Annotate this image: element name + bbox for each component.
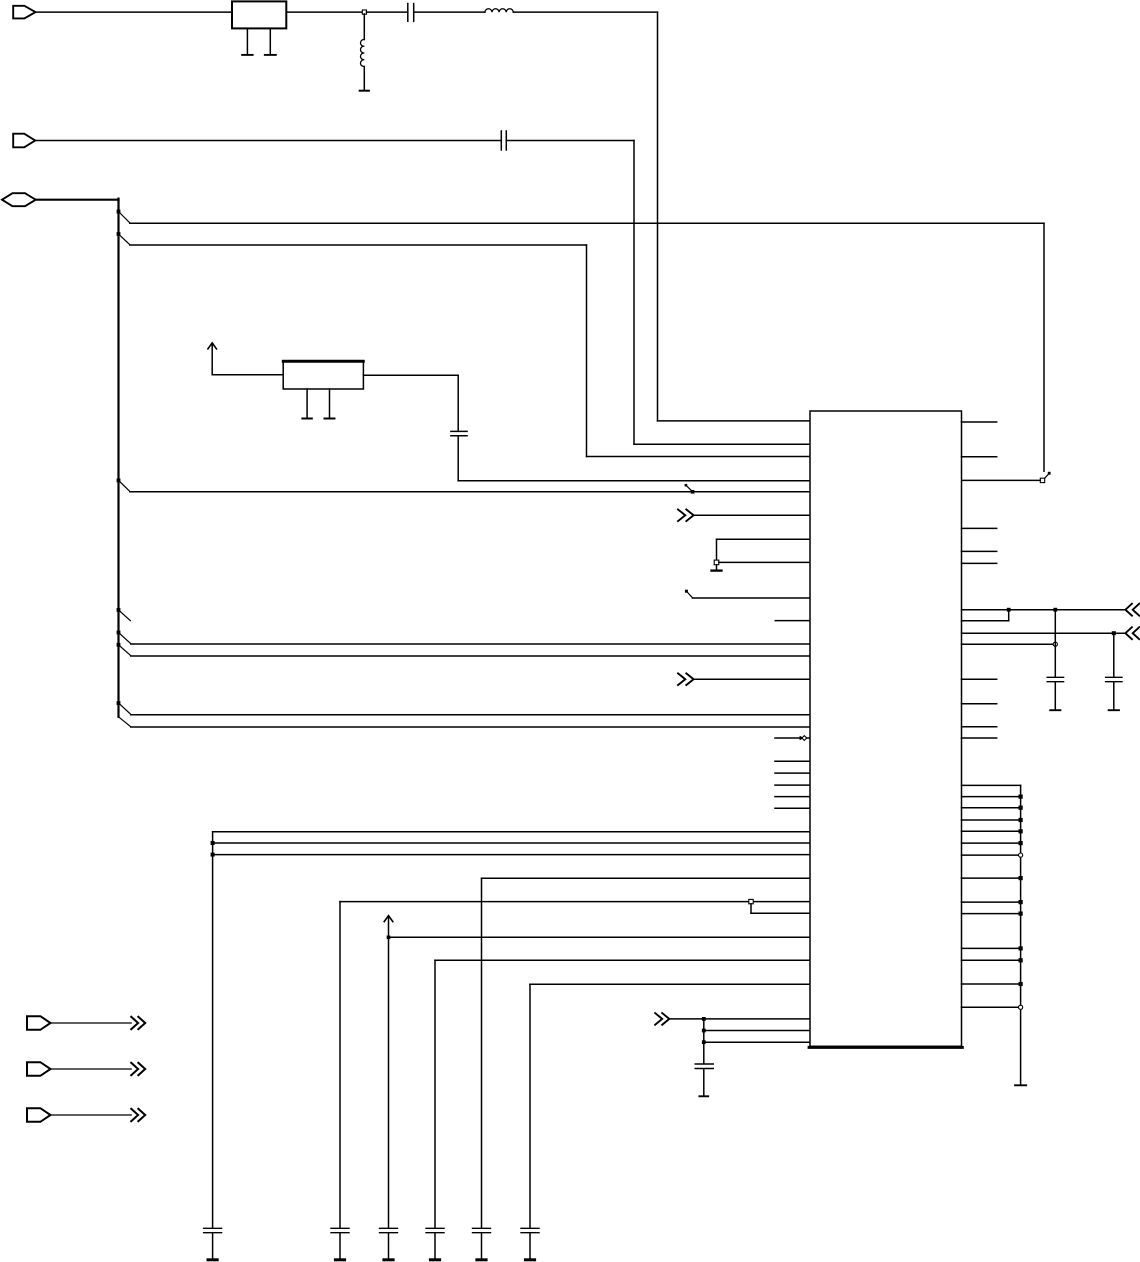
wire row5 <box>340 901 810 903</box>
capacitor C8 <box>473 1228 491 1232</box>
bus wire J3 east <box>36 199 119 201</box>
capacitor C7 <box>426 1228 444 1232</box>
bus entry b1 <box>119 212 130 223</box>
wire hook down <box>1008 610 1010 621</box>
wire U1 pin to bus <box>962 854 1021 856</box>
stub U1 right pin <box>962 550 997 552</box>
U2 ground pin 1 <box>302 389 311 419</box>
wire b5 east <box>131 643 810 645</box>
junction bus <box>1019 795 1023 799</box>
ground bus <box>1015 1084 1026 1086</box>
bus entry b5 <box>119 633 131 644</box>
inductor L2 (shunt) <box>360 39 364 66</box>
junction circle t4 <box>1053 642 1057 646</box>
junction square row5 <box>749 899 753 903</box>
port J3 (bidirectional) <box>2 193 36 206</box>
wire C9 to ground <box>529 1233 531 1258</box>
wire J5 to arrow <box>51 1068 132 1070</box>
wire C11 bottom <box>1054 682 1056 709</box>
wire U1 pin to bus <box>962 819 1021 821</box>
power flag VCC2 <box>384 916 393 1228</box>
wire U1 pin to bus <box>962 913 1021 915</box>
wire into U1 right pin <box>962 479 1041 481</box>
wire b2 down <box>586 245 588 457</box>
wire U1 pin to bus <box>962 877 1021 879</box>
port J4 <box>27 1016 51 1030</box>
ground L2 <box>360 90 369 92</box>
stub U1 pin <box>775 760 810 762</box>
sheet arrow in 1 <box>678 510 694 522</box>
junction bus <box>1019 876 1023 880</box>
node tick b3 <box>685 484 693 492</box>
stub U1 right pin <box>962 527 997 529</box>
port J5 <box>27 1062 51 1076</box>
wire row1 <box>213 831 810 833</box>
wire U1 pin to bus <box>962 901 1021 903</box>
wire into U1 pin VCC <box>458 480 810 482</box>
sheet arrow out 2 <box>1125 627 1139 639</box>
wire hook into U1 <box>962 620 1009 622</box>
wire rowB <box>704 1030 810 1032</box>
wire U1 pin to bus <box>962 947 1021 949</box>
regulator U2 <box>283 361 363 389</box>
capacitor C6 <box>380 1228 398 1232</box>
junction bus <box>1019 806 1023 810</box>
inductor L1 (series) <box>485 9 513 13</box>
junction bus <box>1019 982 1023 986</box>
wire C6 to ground <box>388 1233 390 1258</box>
junction bus <box>1019 958 1023 962</box>
bus entry b7 <box>119 703 131 714</box>
capacitor C2 <box>501 131 506 150</box>
filter FL1 <box>232 1 286 28</box>
capacitor C9 <box>521 1228 539 1232</box>
sheet arrow in 2 <box>678 673 694 685</box>
wire J6 to arrow <box>51 1114 132 1116</box>
junction bus <box>1019 912 1023 916</box>
bus entry b6 <box>119 645 131 656</box>
wire C2 east <box>506 140 634 142</box>
junction bus <box>1019 829 1023 833</box>
stub U1 right pin <box>962 703 997 705</box>
wire row9 <box>530 983 810 985</box>
stub U1 pin <box>775 620 810 622</box>
ground C7 <box>430 1258 439 1261</box>
wire row8 <box>435 959 810 961</box>
port J2 <box>13 134 35 148</box>
junction on trunk b3 <box>117 479 121 483</box>
junction row2 <box>211 841 215 845</box>
sheet arrow J4 <box>131 1017 145 1029</box>
bus entry b2 <box>119 234 130 245</box>
wire U1 pin to bus <box>962 959 1021 961</box>
ground C11 <box>1050 709 1060 711</box>
wire C12 bottom <box>1113 682 1115 709</box>
wire down to C8 <box>481 878 483 1227</box>
wire drop <box>750 904 752 913</box>
wire U1 pin to bus <box>962 830 1021 832</box>
capacitor C5 <box>331 1228 349 1232</box>
FL1 ground pin 1 <box>242 28 253 55</box>
stub U1 pin <box>775 796 810 798</box>
wire b1 down right side <box>1043 223 1045 471</box>
U2 ground pin 2 <box>325 389 335 419</box>
wire C5 to ground <box>339 1233 341 1258</box>
junction on trunk b1 <box>117 210 121 214</box>
junction bus <box>1019 841 1023 845</box>
wire row4 <box>482 877 811 879</box>
wire U2 out <box>363 374 458 376</box>
sheet arrow J5 <box>131 1063 145 1075</box>
wire FL1 to node A <box>286 11 364 13</box>
wire node A to C1 <box>367 11 408 13</box>
wire down to C7 <box>434 960 436 1227</box>
ground C9 <box>525 1258 534 1261</box>
wire C7 to ground <box>434 1233 436 1258</box>
stub U1 right pin <box>962 737 997 739</box>
wire down at x634 <box>633 141 635 445</box>
stub U1 right pin <box>962 726 997 728</box>
wire U1 gnd pin a <box>717 538 811 540</box>
wire b7 east <box>131 714 810 716</box>
ground C10 <box>699 1095 708 1097</box>
wire C3 down <box>457 437 459 481</box>
wire C4 to ground <box>212 1233 214 1258</box>
ground C12 <box>1109 709 1119 711</box>
wire J1 to FL1 <box>36 11 233 13</box>
wire U1 gnd pin b <box>719 561 810 563</box>
junction bus <box>1019 1005 1023 1009</box>
FL1 ground pin 2 <box>265 28 276 55</box>
stub U1 right pin <box>962 678 997 680</box>
junction d3 <box>702 1040 706 1044</box>
ground C5 <box>335 1258 344 1261</box>
wire node A down <box>363 14 365 40</box>
junction d1 <box>702 1017 706 1021</box>
wire into U1 pin RF1 <box>658 420 811 422</box>
wire down at x657 <box>657 12 659 421</box>
junction on b3 <box>691 490 695 494</box>
junction square gnd <box>714 560 719 565</box>
wire U1 pin to bus <box>962 796 1021 798</box>
stub U1 pin <box>775 784 810 786</box>
capacitor C4 <box>204 1228 222 1232</box>
sheet arrow in 3 <box>655 1013 669 1025</box>
wire b1 east <box>130 222 1044 224</box>
wire into U1 pin RF2 <box>634 443 810 445</box>
junction d2 <box>702 1029 706 1033</box>
wire gnd drop <box>716 539 718 561</box>
junction t3 <box>1112 631 1116 635</box>
wire down to C10 <box>703 1019 705 1063</box>
wire down to C3 <box>457 375 459 430</box>
stub U1 right pin <box>962 421 997 423</box>
node tick c <box>685 590 693 598</box>
wire net RXD <box>962 632 1126 634</box>
bus trunk vertical <box>117 199 119 717</box>
wire U1 pin to bus <box>962 842 1021 844</box>
junction t1 <box>1007 608 1011 612</box>
stub U1 pin <box>775 772 810 774</box>
wire C10 to ground <box>703 1069 705 1095</box>
wire bus top <box>962 784 1021 786</box>
node tick b1 <box>1043 472 1050 480</box>
ground bus vertical <box>1020 785 1022 1084</box>
wire down to C9 <box>529 984 531 1227</box>
wire U1 pin to bus <box>962 983 1021 985</box>
junction on trunk b7 <box>117 701 121 705</box>
junction square b1 <box>1040 478 1044 482</box>
junction bus <box>1019 818 1023 822</box>
wire C1 to L1 <box>414 11 485 13</box>
wire into U1 <box>692 597 810 599</box>
wire into U1 pin <box>587 456 811 458</box>
stub U1 right pin <box>962 456 997 458</box>
ground C4 <box>208 1258 217 1261</box>
wire C11 top <box>1054 610 1056 677</box>
port J6 <box>27 1108 51 1122</box>
wire row2 <box>213 842 810 844</box>
wire down to C5 <box>339 902 341 1228</box>
capacitor C12 <box>1106 677 1122 681</box>
wire C12 top <box>1113 633 1115 676</box>
wire J4 to arrow <box>51 1022 132 1024</box>
ground C6 <box>384 1258 393 1261</box>
sheet arrow out 1 <box>1125 604 1139 616</box>
wire VCC1 to U2 <box>212 374 283 376</box>
capacitor C11 <box>1047 677 1063 681</box>
port J1 (RF input) <box>13 6 35 19</box>
wire b2 east <box>130 244 587 246</box>
wire row3 <box>213 854 810 856</box>
junction bus <box>1019 853 1023 857</box>
wire to node <box>669 1018 704 1020</box>
wire b6 east <box>131 655 810 657</box>
junction t2 <box>1053 608 1057 612</box>
wire down to C4 <box>212 832 214 1228</box>
wire net TXD <box>962 609 1126 611</box>
junction on trunk b2 <box>117 232 121 236</box>
stub U1 right pin <box>962 562 997 564</box>
junction on trunk b5 <box>117 631 121 635</box>
ground C8 <box>477 1258 486 1261</box>
junction on trunk b6 <box>117 643 121 647</box>
wire rowC <box>704 1041 810 1043</box>
wire into U1 <box>694 514 810 516</box>
bus entry b3 <box>119 480 130 491</box>
wire row6 <box>751 912 810 914</box>
junction on trunk b4 <box>117 608 121 612</box>
stub U1 pin <box>775 807 810 809</box>
wire L1 east <box>513 11 657 13</box>
wire U1 pin to bus <box>962 807 1021 809</box>
capacitor C10 <box>695 1064 713 1069</box>
wire C8 to ground <box>481 1233 483 1258</box>
bus entry b4 (stub) <box>119 610 131 621</box>
wire into U1 <box>694 678 810 680</box>
node A junction <box>362 10 366 14</box>
wire pin to bus <box>962 643 1054 645</box>
wire L2 to ground <box>363 67 365 91</box>
bus entry b8 <box>119 717 131 727</box>
wire row7 <box>389 936 811 938</box>
wire b8 east <box>131 726 810 728</box>
junction row3 <box>211 853 215 857</box>
capacitor C1 <box>408 4 414 22</box>
pin NC diamond <box>775 736 810 741</box>
power flag VCC1 <box>208 343 217 375</box>
wire J2 to C2 <box>35 140 501 142</box>
junction bus <box>1019 900 1023 904</box>
wire b3 east <box>130 491 810 493</box>
IC U1 <box>809 411 962 1047</box>
junction bus <box>1019 946 1023 950</box>
junction square row7 <box>387 936 391 940</box>
wire U1 pin to bus <box>962 1006 1021 1008</box>
ground GND1 <box>712 565 722 571</box>
wire rowA <box>704 1018 810 1020</box>
capacitor C3 <box>451 431 467 435</box>
sheet arrow J6 <box>131 1109 145 1121</box>
